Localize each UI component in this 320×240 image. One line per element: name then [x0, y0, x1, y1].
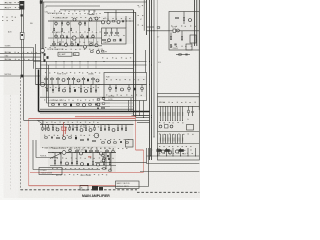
- wire right edge 1: [194, 0, 196, 46]
- wire comb1 lead 2: [164, 106, 166, 120]
- wire top rail 2: [46, 5, 100, 7]
- value labels tone box b: [106, 95, 142, 96]
- capacitor C93: [71, 153, 72, 166]
- wire tick 7: [195, 148, 197, 156]
- capacitor C58: [186, 54, 187, 56]
- junction psu a: [149, 30, 150, 31]
- wire row1 ext: [102, 20, 134, 22]
- junction row1 mid2 4: [91, 38, 92, 39]
- transistor Q52: [77, 79, 80, 82]
- label lpf: [104, 51, 107, 53]
- label signal gnd: [2, 17, 16, 18]
- transistor Q2 input: [41, 49, 45, 53]
- junction row1 ext a: [126, 21, 127, 22]
- text caution line1: [117, 182, 130, 185]
- label row2 tone: [57, 73, 66, 75]
- value labels rails top: [102, 58, 131, 59]
- transistor Q18: [95, 44, 98, 47]
- label AUX: [8, 31, 12, 34]
- bottom dark text: [82, 194, 110, 198]
- transistor Q81: [62, 151, 66, 155]
- label selector: [30, 23, 33, 25]
- wire dashed vertical: [20, 77, 22, 190]
- junction row1 low 3: [81, 45, 82, 46]
- terminal small: [21, 14, 23, 16]
- junction row3 2: [53, 124, 54, 125]
- wire board line h3: [40, 113, 134, 115]
- junction row3 4: [63, 124, 64, 125]
- wire h156 right: [147, 155, 200, 157]
- wire comb2 lead 2: [164, 134, 166, 144]
- wire row1 ladder b 0: [57, 38, 59, 46]
- capacitor C71: [58, 104, 59, 106]
- capacitor C33: [122, 20, 123, 22]
- resistor R76: [102, 98, 105, 99]
- wire row4 mid: [50, 165, 116, 167]
- value labels outbox e: [159, 153, 193, 154]
- wire comb1 lead 4: [169, 106, 171, 120]
- wire rail ext light a: [110, 102, 134, 104]
- resistor R15: [61, 29, 62, 32]
- junction row3 low 0: [51, 123, 54, 126]
- junction bus r1 b: [149, 84, 150, 85]
- transistor Q88: [102, 159, 105, 162]
- junction row4 5: [90, 152, 91, 153]
- value labels row1 a2: [54, 11, 96, 12]
- resistor R91: [69, 137, 72, 138]
- junction row3 11: [98, 124, 99, 125]
- junction comb1 8: [179, 119, 182, 122]
- junction row1 ext b: [130, 21, 131, 22]
- junction row3 8: [83, 124, 84, 125]
- resistor RC29: [182, 138, 183, 142]
- junction row3 low 4: [83, 123, 86, 126]
- wire outbox h106: [158, 105, 200, 107]
- junction bus r1 c: [149, 111, 150, 112]
- wire tape rec out: [0, 4, 20, 6]
- resistor R102: [76, 149, 79, 153]
- shading row2: [42, 75, 100, 96]
- wire feeder v145: [145, 50, 147, 73]
- resistor R54: [57, 77, 60, 85]
- wire bottom h169: [33, 169, 100, 171]
- wire row2 bottom rail: [40, 96, 134, 98]
- resistor R109: [92, 153, 93, 166]
- label row3 low text: [44, 148, 52, 150]
- wire outbox h143: [158, 143, 200, 145]
- junction row1 mid a: [58, 38, 59, 39]
- wire red jog: [136, 149, 144, 151]
- resistor R43: [170, 45, 171, 48]
- text power trans: [41, 170, 48, 172]
- wire gnd lead: [0, 56, 41, 58]
- wire board line h2: [40, 108, 134, 110]
- resistor R20: [92, 34, 95, 38]
- junction row3 1: [47, 124, 48, 125]
- resistor RC20: [160, 138, 161, 142]
- transistor Q79: [108, 141, 111, 144]
- wire red bottom: [29, 185, 116, 187]
- label row1 ext: [104, 18, 107, 20]
- capacitor C54: [74, 89, 76, 92]
- capacitor C73: [95, 104, 96, 106]
- value labels row2 c: [44, 100, 98, 101]
- resistor R31: [105, 28, 108, 36]
- label U1 text: [59, 53, 66, 56]
- value labels row1 e: [52, 49, 99, 50]
- wire rail stub 5: [95, 62, 97, 69]
- value labels left top b: [5, 7, 20, 8]
- label box safety caution: [116, 181, 140, 188]
- terminal blob 2: [165, 149, 170, 152]
- wire tick 5: [180, 148, 182, 156]
- wire comb2 lead 6: [174, 134, 176, 144]
- capacitor C57: [134, 88, 136, 91]
- node tick 1: [156, 155, 159, 158]
- resistor RC13: [167, 112, 168, 116]
- junction row3 10: [93, 124, 94, 125]
- wire row1 ladder 3: [79, 21, 81, 46]
- wire red feed 1: [29, 117, 136, 119]
- resistor R14: [53, 28, 54, 31]
- value labels row1 d: [53, 42, 98, 43]
- junction bus c3: [133, 84, 134, 85]
- label fuse: [40, 155, 46, 158]
- junction psu main: [177, 30, 178, 31]
- wire tick 1: [157, 148, 159, 156]
- resistor R22: [71, 41, 74, 46]
- wire board outline h: [39, 111, 150, 113]
- wire rail stub 4: [87, 62, 89, 69]
- wire tick 4: [172, 148, 174, 156]
- wire row1 ladder 1: [61, 21, 63, 46]
- wire vertical feed 3: [43, 2, 45, 62]
- wire top rail 3: [60, 9, 134, 11]
- resistor RC24: [170, 138, 171, 142]
- wire bus R1: [149, 0, 151, 160]
- capacitor C41: [175, 44, 176, 46]
- paper texture: [0, 0, 200, 200]
- wire row2 top h: [100, 53, 134, 55]
- junction row1 low 2: [72, 45, 73, 46]
- value labels row4 c: [52, 168, 111, 169]
- capacitor C13: [66, 35, 67, 38]
- value labels tone box: [106, 79, 144, 80]
- resistor R87: [117, 125, 118, 132]
- wire comb2 lead 8: [179, 134, 181, 144]
- wire row1 ladder 0: [53, 21, 55, 46]
- value labels row1 ext: [103, 18, 130, 19]
- value labels row2 a: [45, 72, 100, 73]
- junction row3 6: [73, 124, 74, 125]
- shading row1 lower: [50, 32, 100, 50]
- wire h163 right: [147, 163, 200, 165]
- junction row1 low 0: [54, 45, 55, 46]
- transistor Q73: [56, 128, 59, 131]
- capacitor C80: [75, 137, 77, 140]
- wire dark h122: [137, 122, 150, 124]
- value near bus top: [139, 7, 141, 9]
- transistor Q75: [89, 129, 92, 132]
- wire row3 rail1: [47, 102, 111, 104]
- resistor R92: [81, 139, 84, 140]
- wire bus R3: [153, 0, 155, 137]
- resistor RC11: [162, 112, 163, 116]
- wire tape pb in: [0, 9, 20, 11]
- arrow pointer row3: [38, 121, 44, 125]
- junction rail1 2: [64, 61, 65, 62]
- resistor R55: [67, 77, 70, 85]
- wire bottom v33: [32, 140, 34, 170]
- label box power trans: [39, 168, 62, 175]
- transistor Q20: [96, 50, 99, 53]
- resistor R18: [55, 34, 58, 39]
- resistor R63: [90, 85, 91, 94]
- junction row1 mid2 1: [64, 38, 65, 39]
- IC U1 eq amp label box: [58, 52, 72, 56]
- wire r67 lead: [176, 54, 190, 56]
- resistor R113: [103, 168, 106, 169]
- junction row3 low 3: [75, 123, 78, 126]
- wire tuner input: [0, 47, 34, 49]
- junction comb1 7: [176, 119, 179, 122]
- transistor Q76: [94, 133, 99, 138]
- value labels row4 d: [52, 174, 107, 175]
- resistor R114: [109, 170, 112, 171]
- junction tone drop b: [143, 117, 144, 118]
- capacitor C72: [70, 104, 72, 107]
- label row1 values b: [52, 32, 60, 34]
- junction row3 3: [58, 124, 59, 125]
- label outbox top: [160, 102, 166, 104]
- transistor Q13: [95, 17, 98, 20]
- wire comb1 lead 8: [179, 106, 181, 120]
- transistor Q11: [73, 18, 76, 21]
- wire row3 rail2: [49, 106, 111, 108]
- capacitor C94: [87, 163, 89, 166]
- wire comb2 lead 9: [182, 134, 184, 144]
- text ac outlet: [81, 186, 84, 189]
- resistor R34: [112, 21, 115, 22]
- junction rail1 1: [56, 61, 57, 62]
- capacitor C53: [52, 85, 53, 94]
- junction row4 7: [105, 152, 106, 153]
- junction row2 main 2: [60, 84, 61, 85]
- block output box outline: [158, 93, 200, 160]
- capacitor C52: [87, 79, 89, 82]
- IC U2 label box: [74, 53, 80, 56]
- wire psu small h: [147, 26, 155, 28]
- value labels row1 b: [53, 17, 100, 18]
- junction row1 mid2 0: [56, 38, 57, 39]
- capacitor C96: [107, 155, 108, 157]
- transistor Q86: [81, 163, 84, 166]
- resistor R33b: [103, 39, 106, 40]
- switch red detail: [62, 127, 66, 131]
- junction row4 2: [68, 152, 69, 153]
- node bus R3 end: [154, 137, 155, 138]
- label row3 top text: [108, 99, 113, 101]
- junction tone drop a: [139, 115, 140, 116]
- resistor RC26: [175, 138, 176, 142]
- junction comb1 1: [162, 119, 165, 122]
- wire vertical feed 2: [41, 0, 43, 54]
- capacitor C74: [97, 108, 98, 110]
- transistor Q19c: [117, 21, 120, 24]
- capacitor C81: [87, 139, 88, 141]
- transistor Q77: [112, 129, 115, 132]
- wire right edge 3: [198, 0, 200, 110]
- label GND: [5, 55, 10, 57]
- capacitor C56: [115, 85, 116, 93]
- wire red comp v1: [63, 122, 65, 137]
- value labels top bus col c: [138, 25, 144, 26]
- junction rail1 5: [88, 61, 89, 62]
- resistor R21: [53, 41, 56, 46]
- junction row4 3: [75, 152, 76, 153]
- capacitor C15: [59, 41, 60, 46]
- transistor QO3: [161, 150, 164, 153]
- wire bottom v36: [35, 140, 37, 158]
- value labels row1 c: [52, 32, 101, 33]
- transistor Q87: [97, 163, 100, 166]
- transistor QO4: [168, 151, 171, 154]
- label box ac outlet: [80, 185, 88, 190]
- wire top rail 1: [41, 1, 147, 3]
- wire red comp v2: [64, 127, 66, 134]
- resistor R101: [69, 148, 72, 153]
- junction row3 low 5: [91, 123, 94, 126]
- junction comb1 4: [169, 119, 172, 122]
- label tone box flat: [106, 76, 110, 79]
- red mark row4: [88, 156, 91, 157]
- resistor R75: [97, 99, 100, 100]
- label row2 vr: [88, 73, 94, 75]
- wire row4 main: [48, 152, 116, 154]
- junction row4 6: [98, 152, 99, 153]
- value labels psu box b: [171, 46, 192, 47]
- wire comb1 lead 9: [182, 106, 184, 120]
- capacitor C79: [51, 137, 52, 139]
- junction row1 main 4: [89, 21, 90, 22]
- wire rail stub 0: [55, 62, 57, 69]
- wire vertical feed 5: [35, 44, 37, 85]
- pointer line row4: [50, 153, 62, 159]
- transistor Q43: [189, 19, 192, 22]
- transistor Q54: [63, 89, 66, 92]
- resistor R13: [79, 21, 82, 26]
- shading tone box: [104, 76, 146, 97]
- relay RY1: [187, 125, 194, 131]
- value labels ticks: [151, 150, 192, 151]
- transistor Q78: [63, 137, 66, 140]
- capacitor C3: [44, 59, 46, 62]
- transistor Q19: [101, 21, 104, 24]
- block top small box: [89, 10, 94, 15]
- wire bus C1 corner east: [134, 115, 150, 117]
- resistor R115: [102, 155, 105, 156]
- wire rail stub 2: [71, 62, 73, 69]
- label row4 top text: [52, 148, 64, 150]
- value labels outbox d: [159, 146, 192, 147]
- resistor R112: [103, 158, 106, 159]
- value labels row4 b: [52, 158, 114, 159]
- wire box vert right: [125, 16, 127, 28]
- junction comb1 3: [166, 119, 169, 122]
- resistor RC16: [175, 112, 176, 116]
- resistor R80: [52, 125, 53, 132]
- resistor R111: [109, 153, 110, 166]
- wire tick 3: [166, 148, 168, 156]
- junction row1 main 1: [62, 21, 63, 22]
- resistor R77b: [102, 107, 105, 108]
- value labels left phono b: [5, 59, 34, 60]
- label row2 values low: [50, 100, 64, 102]
- resistor R59: [46, 85, 47, 93]
- junction row3 low 1: [59, 123, 62, 126]
- resistor R71: [52, 104, 55, 105]
- wire red left vert: [28, 118, 30, 185]
- transistor Q82: [80, 152, 83, 155]
- text power trans2: [41, 172, 54, 175]
- wire box feed v2: [115, 10, 117, 20]
- value input cap: [47, 49, 53, 51]
- capacitor C31: [111, 28, 112, 36]
- wire rail stub 3: [79, 62, 81, 69]
- label PB IN: [5, 8, 10, 10]
- junction rail1 7: [104, 61, 105, 62]
- resistor R79: [48, 125, 49, 132]
- junction row3 low 2: [67, 123, 70, 126]
- junction row1 main 0: [54, 21, 55, 22]
- label REC OUT: [5, 3, 13, 5]
- resistor R42: [170, 33, 171, 41]
- resistor R94: [102, 142, 105, 143]
- value right mid: [158, 62, 161, 64]
- value labels row3 a: [42, 122, 99, 123]
- wire outbox h97: [158, 96, 200, 98]
- junction psu c: [154, 30, 155, 31]
- label signal gnd b: [2, 20, 13, 21]
- resistor RC27: [177, 138, 178, 142]
- resistor R90: [57, 137, 60, 138]
- wire tick 2: [158, 148, 160, 156]
- capacitor C83: [192, 106, 193, 116]
- transistor Q74: [80, 129, 83, 132]
- resistor R89: [45, 137, 48, 138]
- junction row2 main 7: [99, 84, 100, 85]
- wire row2 drop b: [48, 65, 50, 107]
- value labels row3 d: [42, 147, 97, 148]
- wire dashed vertical faint: [10, 95, 12, 190]
- junction rail1 4: [80, 61, 81, 62]
- shading row3: [40, 120, 133, 148]
- resistor R23: [90, 42, 93, 46]
- wire phono R: [0, 60, 41, 62]
- connector J1: [19, 1, 24, 10]
- junction bus c1: [133, 61, 134, 62]
- shading psu box: [169, 12, 199, 50]
- transistor Q17: [84, 45, 87, 48]
- wire row1 ladder 4: [88, 21, 90, 46]
- junction row4 8: [112, 152, 113, 153]
- label row1 values a: [55, 17, 67, 19]
- label psu bottom: [173, 48, 179, 50]
- wire row3 main: [40, 124, 134, 126]
- wire comb1 lead 3: [167, 106, 169, 120]
- junction row2 main 5: [84, 84, 85, 85]
- capacitor C95: [108, 158, 109, 160]
